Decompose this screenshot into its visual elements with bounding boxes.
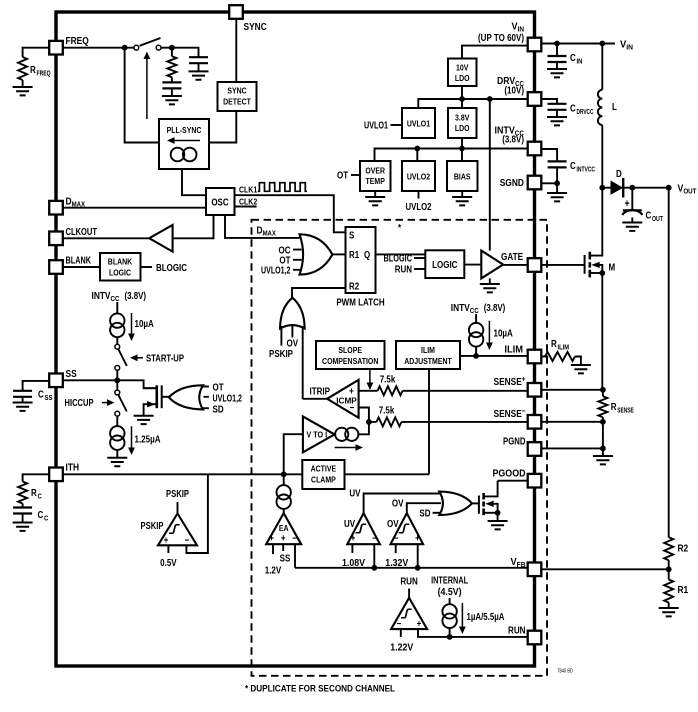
label RUN pin xyxy=(508,625,526,637)
ground CC xyxy=(13,523,33,531)
or-gate SS discharge xyxy=(169,385,203,409)
arrow 10uA SS xyxy=(128,313,135,341)
svg-text:R2: R2 xyxy=(678,543,689,555)
amplifier V TO I xyxy=(303,416,335,452)
label 1.08V xyxy=(342,558,365,569)
ground CSS xyxy=(13,403,33,411)
pin SYNC xyxy=(229,5,243,19)
wire CIN ground xyxy=(556,62,558,69)
wire VFB rail xyxy=(295,567,528,569)
wire hiccup to 1.25uA xyxy=(116,416,118,426)
label UV plus xyxy=(351,534,356,545)
label SD pgood xyxy=(419,509,441,520)
wire ILIM to RILIM xyxy=(541,356,548,358)
wire RFREQ to ground xyxy=(22,80,24,87)
node FET source xyxy=(495,510,501,516)
label START-UP xyxy=(146,354,184,365)
svg-text:OVER: OVER xyxy=(365,166,385,176)
wire SS to hiccup switch xyxy=(116,380,118,390)
label OV reset xyxy=(287,339,299,350)
wire LOGIC to driver xyxy=(464,264,481,266)
wire SS pin rail xyxy=(63,380,156,388)
svg-text:OV: OV xyxy=(387,519,399,530)
wire latch Q to LOGIC xyxy=(376,253,426,255)
label SD input xyxy=(213,405,224,416)
label COUT plus xyxy=(625,198,630,210)
svg-text:1.2V: 1.2V xyxy=(265,566,282,577)
error amp EA xyxy=(266,513,301,544)
clock waveform glyph xyxy=(258,183,307,192)
pin ITH xyxy=(49,468,63,482)
note duplicate for second channel xyxy=(245,684,395,695)
wire CDRVCC ground xyxy=(556,110,558,117)
inductor L xyxy=(598,90,617,125)
diode D xyxy=(602,169,632,198)
wire 10uA to ILIM rail xyxy=(475,347,477,356)
svg-text:7.5k: 7.5k xyxy=(380,375,396,386)
wire SGND ground xyxy=(556,183,558,193)
or-gate PGOOD xyxy=(439,492,472,515)
label PSKIP plus xyxy=(164,536,169,547)
wire OR to gate xyxy=(162,396,169,398)
wire ILIM rail xyxy=(460,355,528,357)
node FREQ-PLL junction xyxy=(122,45,128,51)
pin SENSEP xyxy=(528,383,542,397)
wire R1 to ground xyxy=(668,603,670,609)
label 0.5V xyxy=(160,558,177,569)
svg-text:SYNC: SYNC xyxy=(244,21,268,33)
svg-text:GATE: GATE xyxy=(501,251,523,263)
pin ILIM xyxy=(528,350,542,364)
pin DRVCC xyxy=(528,92,542,106)
label DMAX internal xyxy=(257,225,276,238)
svg-text:M: M xyxy=(609,263,616,274)
wire UV ref xyxy=(351,544,353,553)
ground CDRVCC xyxy=(547,117,567,125)
node feedback xyxy=(666,566,672,572)
label RUN plus xyxy=(417,619,422,630)
wire BIAS top xyxy=(461,149,463,162)
svg-text:(3.8V): (3.8V) xyxy=(484,303,506,314)
arrow HICCUP xyxy=(102,399,115,406)
wire RUN out xyxy=(408,589,410,598)
svg-text:7840 BD: 7840 BD xyxy=(557,669,573,675)
wire CSS xyxy=(23,381,50,391)
wire FREQ to switch xyxy=(63,47,134,49)
svg-text:S: S xyxy=(349,231,355,242)
label SS EA xyxy=(280,554,291,565)
block ACTIVE CLAMP xyxy=(302,460,344,489)
wire driver to GATE pin xyxy=(503,264,528,266)
wire M source down xyxy=(601,273,603,390)
resistor 7.5k bottom xyxy=(377,406,402,427)
svg-text:SLOPE: SLOPE xyxy=(338,345,362,355)
svg-text:SENSE: SENSE xyxy=(617,406,634,415)
svg-text:IN: IN xyxy=(577,57,583,66)
node L junction xyxy=(599,41,605,47)
current source 10uA SS xyxy=(110,313,124,337)
svg-text:1.25µA: 1.25µA xyxy=(135,435,161,446)
label UVLO2 out xyxy=(406,202,432,213)
wire PSKIP out xyxy=(177,502,179,514)
svg-text:LDO: LDO xyxy=(455,123,470,133)
label 1.2V xyxy=(265,566,282,577)
svg-text:UVLO1,2: UVLO1,2 xyxy=(213,394,243,405)
hysteresis RUN xyxy=(401,609,412,618)
svg-text:SENSE−: SENSE− xyxy=(494,407,526,421)
svg-text:FREQ: FREQ xyxy=(66,35,89,47)
svg-text:OV: OV xyxy=(392,499,404,510)
wire ICMP plus input xyxy=(359,390,370,392)
label SENSE- pin xyxy=(494,407,526,421)
comparator OV xyxy=(391,513,424,544)
node RSENSE bottom xyxy=(600,419,606,425)
label R2 xyxy=(349,282,360,293)
wire ITH to V TO I xyxy=(284,434,303,474)
node diode cathode xyxy=(629,185,635,191)
block BLANK LOGIC xyxy=(100,253,141,281)
wire OVER TEMP ground xyxy=(374,191,376,197)
wire R2 to VFB node xyxy=(668,560,670,579)
svg-text:(3.8V): (3.8V) xyxy=(125,291,147,302)
comparator ICMP xyxy=(327,380,359,418)
buffer CLKOUT xyxy=(149,225,172,252)
svg-text:ILIM: ILIM xyxy=(558,343,570,352)
label HICCUP xyxy=(65,398,94,409)
wire VFB pin to divider xyxy=(541,568,668,570)
pin FREQ xyxy=(49,41,63,55)
ground SGND xyxy=(547,193,567,201)
node diode anode xyxy=(599,185,605,191)
pin CLKOUT xyxy=(49,232,63,246)
arrow 1.25uA xyxy=(128,426,135,455)
label UV out xyxy=(349,489,360,500)
svg-text:CLKOUT: CLKOUT xyxy=(66,226,98,238)
ground PGOOD FET xyxy=(488,521,508,529)
svg-text:COMPENSATION: COMPENSATION xyxy=(322,356,378,366)
wire diode to VOUT xyxy=(632,187,669,189)
wire PSKIP plus ref xyxy=(167,545,169,553)
wire switch to filter xyxy=(161,48,199,57)
wire RC to CC xyxy=(22,504,24,508)
svg-text:RUN: RUN xyxy=(508,625,526,637)
svg-text:(4.5V): (4.5V) xyxy=(438,587,462,598)
wire L to diode node xyxy=(601,125,603,188)
arrow START-UP xyxy=(130,354,143,361)
node 10V LDO out xyxy=(459,96,465,102)
label ICMP plus xyxy=(349,387,354,398)
node DRVCC branch xyxy=(487,96,493,102)
pin PGOOD xyxy=(528,474,542,488)
svg-text:1µA/5.5µA: 1µA/5.5µA xyxy=(467,612,505,623)
buffer gate driver xyxy=(481,251,503,279)
block OSC xyxy=(206,188,235,215)
svg-text:CLAMP: CLAMP xyxy=(311,475,336,485)
svg-text:LDO: LDO xyxy=(455,73,470,83)
label VFB pin xyxy=(511,556,527,569)
current source 10uA ILIM xyxy=(469,323,483,347)
arrow 10uA ILIM xyxy=(486,321,493,350)
label RUN minus xyxy=(397,619,402,630)
wire PLL to OSC xyxy=(182,169,206,195)
block OVER TEMP xyxy=(360,161,391,191)
svg-text:LOGIC: LOGIC xyxy=(109,268,132,278)
label EA minus xyxy=(292,534,297,545)
block SLOPE COMPENSATION xyxy=(316,341,385,369)
ground PGND xyxy=(593,456,613,464)
wire source to startup switch xyxy=(116,337,118,344)
wire BLANK pin to blank logic xyxy=(63,266,100,268)
wire PGND to ground node xyxy=(541,447,603,449)
ground BIAS xyxy=(452,197,472,205)
svg-text:+: + xyxy=(351,534,356,545)
or-gate PWM reset xyxy=(280,298,305,329)
or-gate SS inputs xyxy=(201,387,209,409)
wire VIN pin right xyxy=(541,43,615,45)
wire INTVCC to 10uA source xyxy=(116,302,118,313)
block UVLO1 xyxy=(402,108,435,138)
wire 1.25uA to ground xyxy=(116,450,118,458)
svg-text:V TO I: V TO I xyxy=(307,431,328,440)
svg-text:R1: R1 xyxy=(678,584,689,596)
block LOGIC xyxy=(425,250,464,278)
wire ITH to EA source xyxy=(283,474,285,485)
resistor RFREQ xyxy=(18,57,51,80)
switch S1 blade xyxy=(140,38,161,46)
svg-text:* DUPLICATE FOR SECOND CHANNEL: * DUPLICATE FOR SECOND CHANNEL xyxy=(245,684,395,695)
svg-text:DETECT: DETECT xyxy=(223,97,251,107)
svg-text:FREQ: FREQ xyxy=(37,69,51,78)
svg-text:L: L xyxy=(612,102,617,113)
label EA plus1 xyxy=(269,534,274,545)
label UV side xyxy=(344,519,355,530)
svg-text:ITRIP: ITRIP xyxy=(310,387,331,398)
label FREQ pin xyxy=(66,35,89,47)
capacitor CINTVCC xyxy=(548,161,596,174)
wire 3.8V LDO top xyxy=(461,99,463,108)
label ICMP minus xyxy=(350,403,355,414)
svg-text:INTERNAL: INTERNAL xyxy=(431,576,468,587)
svg-text:PSKIP: PSKIP xyxy=(269,349,293,360)
svg-text:TEMP: TEMP xyxy=(366,176,385,186)
ground gate driver xyxy=(480,284,500,292)
asterisk note xyxy=(398,223,401,234)
capacitor CDRVCC xyxy=(548,104,594,117)
wire GATE pin to M xyxy=(541,264,584,266)
label SYNC pin xyxy=(244,21,268,33)
hysteresis PSKIP xyxy=(169,525,180,534)
node OV vfb junction xyxy=(415,565,421,571)
svg-text:UVLO1: UVLO1 xyxy=(407,119,430,129)
wire OR2 to R2 xyxy=(292,288,346,298)
wire FREQ to RFREQ xyxy=(23,48,50,57)
svg-text:RUN: RUN xyxy=(400,576,418,588)
svg-text:ILIM: ILIM xyxy=(504,344,523,356)
svg-text:UVLO2: UVLO2 xyxy=(407,172,430,182)
svg-text:1.22V: 1.22V xyxy=(390,643,413,654)
svg-text:Q: Q xyxy=(364,250,370,261)
svg-text:SYNC: SYNC xyxy=(227,86,247,96)
or-gate PWM set inputs xyxy=(293,250,302,270)
wire 7.5k bottom to SENSE- xyxy=(369,421,528,423)
svg-text:10µA: 10µA xyxy=(494,329,513,340)
svg-text:−: − xyxy=(397,619,402,630)
wire SENSE+ to RSENSE xyxy=(541,389,603,391)
label 1.32V xyxy=(385,558,408,569)
svg-text:10µA: 10µA xyxy=(135,319,154,330)
label DMAX pin xyxy=(66,196,86,209)
svg-text:R: R xyxy=(611,402,617,413)
pin RUN xyxy=(528,631,542,645)
node PGND junction xyxy=(600,446,606,452)
label DRVCC pin xyxy=(497,75,524,88)
pin SENSEM xyxy=(528,415,542,429)
block PLL-SYNC xyxy=(159,119,209,169)
wire M drain up xyxy=(601,188,603,230)
label INTERNAL xyxy=(431,576,468,587)
switch HICCUP contact a xyxy=(115,390,120,395)
svg-text:BLANK: BLANK xyxy=(66,255,92,267)
svg-text:PLL-SYNC: PLL-SYNC xyxy=(167,125,202,135)
duplicate channel dashed box xyxy=(252,220,548,676)
pin VIN xyxy=(528,38,542,52)
svg-text:+: + xyxy=(415,534,420,545)
wire junction down to PLL xyxy=(125,48,159,143)
comparator PSKIP xyxy=(158,514,197,546)
label ITH pin xyxy=(66,462,80,474)
wire FET source ground xyxy=(497,513,499,521)
wire UVLO2 stub xyxy=(418,191,420,199)
wire FET drain to PGOOD pin xyxy=(498,480,528,482)
svg-text:PWM LATCH: PWM LATCH xyxy=(336,298,384,309)
current source 1.25uA xyxy=(110,426,124,450)
label 4.5V xyxy=(438,587,462,598)
svg-text:R2: R2 xyxy=(349,282,360,293)
wire mirror to ICMP node xyxy=(358,422,369,434)
svg-text:10V: 10V xyxy=(456,63,469,73)
label ICMP xyxy=(336,396,357,406)
current mirror V TO I xyxy=(335,428,358,441)
switch HICCUP contact b xyxy=(115,411,120,416)
wire SYNC to SYNC DETECT xyxy=(235,19,237,82)
wire OV to VFB rail xyxy=(417,544,419,568)
label 3.8v xyxy=(502,135,524,146)
label INTVCC 3.8V left xyxy=(92,291,147,303)
arrow inside PLL xyxy=(167,137,200,144)
svg-text:C: C xyxy=(570,161,576,172)
label 1uA 5.5uA xyxy=(467,612,505,623)
capacitor freq filter xyxy=(189,57,208,71)
label OV out xyxy=(392,499,404,510)
ground COUT xyxy=(622,223,642,231)
block 3.8V LDO xyxy=(448,108,477,138)
label ITRIP xyxy=(310,387,331,398)
svg-text:PGOOD: PGOOD xyxy=(493,468,526,480)
label SGND pin xyxy=(500,177,525,189)
svg-text:−: − xyxy=(292,534,297,545)
current mirror PLL xyxy=(171,148,197,162)
svg-text:R1: R1 xyxy=(349,250,360,261)
svg-text:INTVCC: INTVCC xyxy=(577,165,596,174)
wire UV out xyxy=(364,494,441,514)
wire RILIM to ground xyxy=(575,357,581,366)
pin INTVCC xyxy=(528,142,542,156)
wire COUT top xyxy=(631,188,633,210)
arrow RUN source xyxy=(459,603,466,634)
svg-text:OT: OT xyxy=(213,383,224,394)
svg-text:OUT: OUT xyxy=(652,214,663,223)
svg-text:PGND: PGND xyxy=(503,436,526,448)
node ITH junction VTOI xyxy=(281,471,287,477)
wire ITH to PSKIP minus xyxy=(186,474,208,553)
wire INTVCC to 10uA ILIM xyxy=(475,314,477,323)
capacitor CIN xyxy=(548,53,583,66)
label BLOGIC xyxy=(156,262,187,274)
svg-text:BIAS: BIAS xyxy=(454,172,471,182)
wire RC xyxy=(23,474,50,481)
node UV vfb junction xyxy=(371,565,377,571)
label EA xyxy=(279,523,289,533)
svg-text:R: R xyxy=(30,65,36,76)
wire PGND ground xyxy=(602,448,604,456)
resistor RSENSE xyxy=(598,390,633,418)
wire VOUT rail down xyxy=(668,188,670,538)
ground freq filter xyxy=(189,71,209,79)
transistor M xyxy=(585,230,616,277)
svg-text:R: R xyxy=(31,488,37,499)
svg-text:7.5k: 7.5k xyxy=(379,406,395,417)
wire OSC leg to DMAX net xyxy=(225,215,300,238)
label OV side xyxy=(387,519,399,530)
svg-text:UVLO1: UVLO1 xyxy=(364,121,388,132)
svg-text:ADJUSTMENT: ADJUSTMENT xyxy=(404,356,452,366)
transistor PGOOD pulldown xyxy=(479,481,498,516)
current source RUN xyxy=(442,604,456,628)
ground RFREQ xyxy=(13,87,33,95)
label BLANK pin xyxy=(66,255,92,267)
wire EA minus to VFB rail xyxy=(294,544,296,568)
pin DMAX xyxy=(49,201,63,215)
svg-text:(10V): (10V) xyxy=(504,86,524,97)
label R1 xyxy=(349,250,360,261)
svg-text:OV: OV xyxy=(287,339,299,350)
wire BIAS ground xyxy=(461,191,463,197)
svg-text:C: C xyxy=(646,211,652,222)
wire 7.5k top to SENSE+ xyxy=(370,390,528,392)
wire NOR out to FET gate xyxy=(472,502,479,504)
switch S1 contact a xyxy=(134,45,139,50)
label UVLO12 input xyxy=(213,394,243,405)
wire SENSE- to RSENSE xyxy=(541,417,603,448)
ground CIN xyxy=(547,69,567,77)
svg-text:HICCUP: HICCUP xyxy=(65,398,94,409)
svg-text:(UP TO 60V): (UP TO 60V) xyxy=(478,33,524,44)
svg-text:C: C xyxy=(570,53,576,64)
svg-text:ICMP: ICMP xyxy=(336,396,357,406)
or-gate PWM set xyxy=(300,234,333,274)
wire internal to source xyxy=(449,598,451,604)
label GATE pin xyxy=(501,251,523,263)
wire INTVCC rail xyxy=(375,149,528,162)
svg-text:(3.8V): (3.8V) xyxy=(502,135,524,146)
wire UVLO2 top xyxy=(416,149,418,162)
block BIAS xyxy=(447,161,478,191)
wire CLK1 to latch S xyxy=(235,195,346,232)
label up to 60v xyxy=(478,33,524,44)
label PSKIP reset xyxy=(269,349,293,360)
svg-text:*: * xyxy=(398,223,401,234)
label PWM LATCH xyxy=(336,298,384,309)
